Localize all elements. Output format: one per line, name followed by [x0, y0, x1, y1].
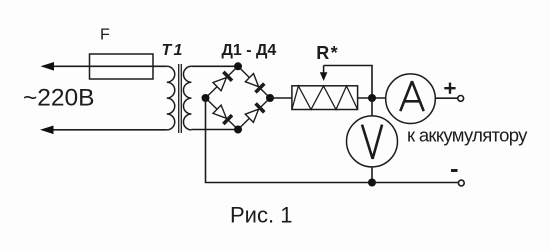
voltmeter V [347, 116, 398, 167]
node: bridge bottom junction [234, 126, 242, 134]
arrow: top AC lead arrowhead [41, 62, 55, 71]
resistor R* (rheostat) body [292, 86, 358, 110]
svg-text:R*: R* [316, 43, 339, 63]
node: plus output junction [368, 94, 376, 102]
wire: bridge left node down to bottom rail [206, 98, 373, 183]
wire: top AC lead [44, 65, 167, 67]
svg-text:Рис. 1: Рис. 1 [230, 202, 292, 227]
wire: bridge edge bottom-right [238, 98, 270, 130]
wire: node to voltmeter top [371, 98, 373, 116]
diode Д4 bottom-to-right [245, 104, 264, 123]
arrow: bottom AC lead arrowhead [40, 126, 54, 135]
ammeter A [386, 74, 436, 124]
wire: wiper to output node [324, 66, 372, 99]
terminal: minus output [458, 180, 464, 186]
label + [444, 83, 455, 94]
transformer T1 core [178, 64, 180, 133]
node: bridge top junction [234, 62, 242, 70]
wire: bottom AC lead [44, 129, 167, 131]
wire: bridge edge left-top [206, 66, 239, 98]
resistor R* zigzag element [292, 86, 358, 110]
transformer T1 secondary winding [183, 66, 191, 130]
fuse F [90, 54, 154, 79]
terminal: plus output [458, 96, 464, 102]
svg-text:~220В: ~220В [23, 84, 95, 111]
diode Д3 left-to-bottom [213, 105, 232, 124]
transformer T1 primary winding [167, 66, 175, 130]
wire: voltmeter bottom to bottom rail [371, 167, 373, 182]
wire: bridge edge top-right [238, 66, 270, 98]
wire: bottom rail to minus terminal [372, 182, 458, 184]
wire: secondary top to bridge top node [191, 65, 238, 67]
node: bridge left junction (minus output) [202, 94, 210, 102]
svg-text:к аккумулятору: к аккумулятору [407, 125, 528, 146]
label V (voltmeter) [362, 125, 382, 159]
label A (ammeter) [400, 81, 423, 111]
wire: bridge edge left-bottom [206, 98, 239, 130]
svg-text:F: F [100, 26, 110, 43]
node: bottom rail junction [368, 179, 376, 187]
resistor R* wiper arrow [320, 66, 328, 82]
node: bridge right junction (plus output) [266, 94, 274, 102]
svg-text:T1: T1 [162, 42, 185, 59]
wire: ammeter to plus terminal [436, 97, 458, 99]
label - (minus) [451, 169, 458, 172]
wire: secondary bottom to bridge bottom node [191, 129, 238, 131]
diode Д1 left-to-top [213, 72, 232, 91]
svg-text:Д1 - Д4: Д1 - Д4 [222, 42, 277, 59]
wire: bridge right node to rheostat [270, 97, 292, 99]
diode Д2 top-to-right [245, 74, 264, 93]
wire: rheostat right terminal to output node [358, 97, 386, 99]
